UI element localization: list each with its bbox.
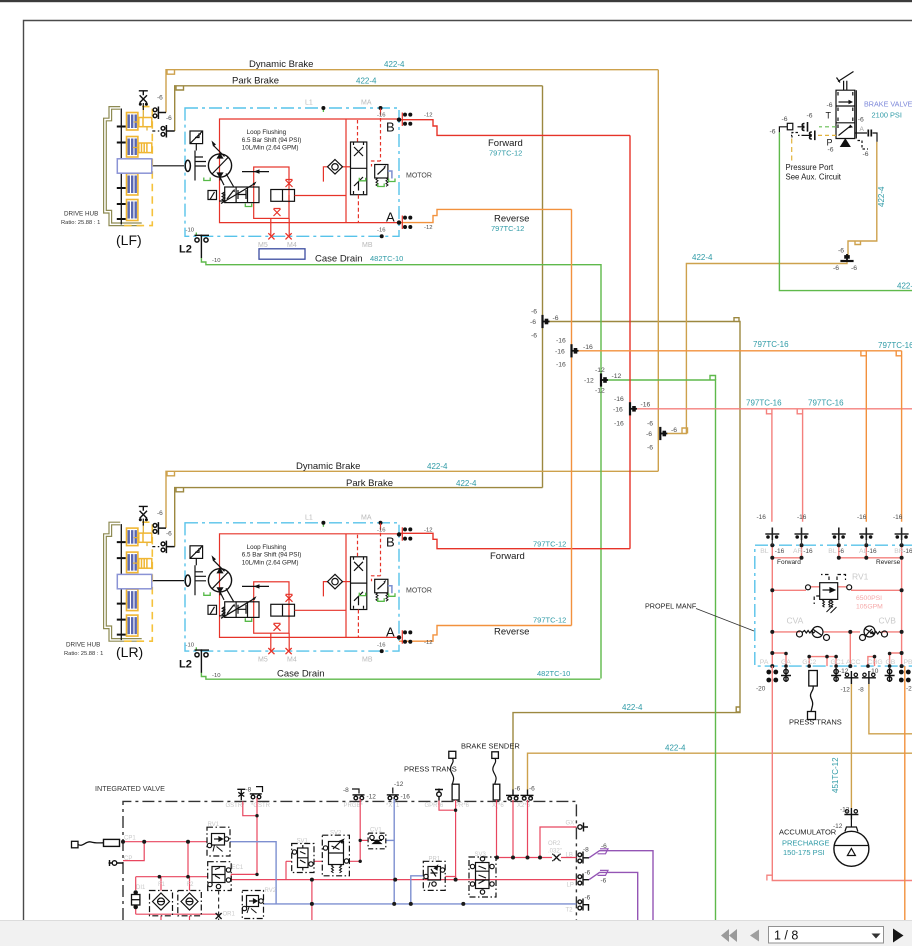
propel manifold enclosure (755, 545, 912, 666)
svg-text:422-4: 422-4 (897, 282, 912, 291)
GA diagnostic fitting (781, 668, 791, 682)
svg-text:PROPEL MANF: PROPEL MANF (645, 602, 697, 611)
wire forward trunk vertical (629, 135, 631, 548)
svg-text:M4: M4 (287, 657, 297, 664)
svg-text:-6: -6 (515, 786, 521, 793)
svg-text:422-4: 422-4 (877, 186, 886, 207)
svg-text:-6: -6 (531, 309, 537, 316)
svg-text:-12: -12 (424, 640, 433, 646)
svg-text:A: A (386, 624, 395, 639)
svg-text:-12: -12 (584, 378, 594, 385)
brake valve check valve (841, 139, 850, 146)
svg-text:OR1: OR1 (223, 912, 236, 918)
svg-text:*GSTR: *GSTR (251, 803, 271, 809)
node reverse tee (555, 338, 593, 369)
svg-text:DI1: DI1 (136, 885, 146, 891)
svg-text:422-4: 422-4 (356, 76, 377, 85)
next-page nav icon (893, 929, 904, 943)
svg-text:-6: -6 (647, 421, 653, 428)
svg-text:-10: -10 (212, 258, 221, 264)
integrated valve enclosure (123, 801, 576, 920)
svg-text:Ratio: 25.88 : 1: Ratio: 25.88 : 1 (64, 651, 103, 657)
svg-text:797TC-12: 797TC-12 (491, 224, 524, 233)
svg-text:-6: -6 (770, 129, 776, 136)
wire LR forward 797TC-12 (399, 533, 630, 548)
svg-text:-6: -6 (833, 265, 839, 272)
svg-text:-10: -10 (869, 668, 879, 675)
wire PR1 tank link (411, 876, 424, 904)
component RV1 (iv) (207, 827, 230, 856)
ACC connector (844, 671, 858, 684)
svg-text:L1: L1 (305, 514, 313, 521)
svg-text:-12: -12 (595, 388, 605, 395)
svg-text:-12: -12 (424, 527, 433, 533)
422-4 inlet fittings (506, 790, 519, 801)
GC1 diagnostic fitting (831, 668, 841, 682)
svg-text:-12: -12 (424, 225, 433, 231)
svg-text:-16: -16 (377, 527, 386, 533)
node dynamic brake tee (646, 421, 677, 452)
CP1 connector (72, 841, 79, 848)
relief valve RV1 (806, 575, 852, 614)
svg-text:GA: GA (781, 659, 791, 666)
wire brake pressure rail (497, 857, 577, 859)
wire main pressure rail (231, 879, 576, 881)
svg-text:MB: MB (362, 242, 373, 249)
pressure port stub (dashed) (791, 133, 804, 138)
svg-text:DRIVE HUB: DRIVE HUB (66, 642, 100, 649)
port size labels right edge (583, 843, 607, 902)
wire LB (purple) (589, 851, 653, 920)
svg-text:797TC-16: 797TC-16 (808, 399, 844, 408)
svg-text:422-4: 422-4 (692, 253, 713, 262)
junction dots (121, 809, 542, 906)
leader line (696, 609, 754, 632)
svg-text:F1: F1 (158, 882, 166, 888)
svg-text:-6: -6 (529, 786, 535, 793)
svg-text:422-4: 422-4 (456, 479, 477, 488)
wire CP1 supply rail (123, 841, 207, 843)
svg-text:Park Brake: Park Brake (232, 75, 279, 86)
forward gallery (772, 545, 901, 666)
svg-text:See Aux. Circuit: See Aux. Circuit (786, 173, 842, 182)
svg-text:MA: MA (361, 514, 372, 521)
svg-text:-6: -6 (838, 548, 844, 555)
svg-text:-8: -8 (583, 847, 589, 854)
svg-text:MOTOR: MOTOR (406, 587, 432, 594)
svg-text:Forward: Forward (490, 551, 525, 562)
PB hose coupling (899, 670, 911, 683)
wire PRGB drop (349, 799, 360, 861)
svg-text:-10: -10 (186, 228, 195, 234)
svg-text:PRECHARGE: PRECHARGE (782, 839, 830, 848)
svg-text:T: T (826, 111, 832, 121)
svg-text:150-175 PSI: 150-175 PSI (783, 848, 825, 857)
svg-text:-6: -6 (157, 95, 163, 102)
CHG connector (862, 671, 876, 684)
connector stems into box (772, 540, 901, 545)
svg-text:Forward: Forward (777, 559, 801, 566)
svg-text:797TC-16: 797TC-16 (878, 341, 912, 350)
tee test fitting (802, 122, 807, 132)
svg-text:CHG: CHG (868, 659, 883, 666)
motor circuit LR (152, 521, 413, 673)
svg-text:-6: -6 (828, 147, 834, 154)
PRGB fitting (352, 789, 365, 800)
wire CHG port line (869, 684, 912, 734)
svg-text:-16: -16 (641, 402, 651, 409)
wire CV1 in (360, 839, 368, 841)
svg-text:-12: -12 (612, 373, 622, 380)
wire LF dynamic brake (422-4) (166, 70, 658, 113)
accumulator (850, 820, 852, 828)
svg-text:-16: -16 (556, 362, 566, 369)
svg-text:INTEGRATED VALVE: INTEGRATED VALVE (95, 784, 165, 793)
wire reverse supply 797TC-16 to propel manifold (572, 351, 902, 522)
svg-text:2100 PSI: 2100 PSI (872, 111, 902, 120)
svg-text:M5: M5 (258, 242, 268, 249)
port LP (578, 874, 589, 886)
component DI1 (132, 891, 140, 910)
wire PR drop (455, 800, 457, 880)
svg-text:-6: -6 (166, 115, 172, 122)
svg-text:-16: -16 (377, 228, 386, 234)
left/right main galleries (772, 558, 901, 651)
svg-text:-20: -20 (906, 686, 912, 693)
wire LR park brake (175, 488, 543, 547)
svg-text:-12: -12 (839, 668, 849, 675)
svg-text:797TC-12: 797TC-12 (489, 149, 522, 158)
brake valve body (836, 90, 856, 138)
wire GPR drop (439, 801, 456, 811)
svg-text:-6: -6 (601, 843, 607, 850)
port GX (573, 826, 576, 828)
wire park brake branch to integrated valve (422-4) (513, 322, 740, 791)
wire filter rail (136, 876, 208, 878)
wire CV1 out (386, 839, 394, 841)
svg-text:422-4: 422-4 (427, 462, 448, 471)
svg-text:X(*6: X(*6 (492, 803, 504, 809)
svg-text:-16: -16 (893, 514, 903, 521)
prev-page nav icon (750, 930, 759, 942)
svg-text:Park Brake: Park Brake (346, 478, 393, 489)
svg-text:L2: L2 (179, 658, 192, 670)
svg-text:105GPM: 105GPM (856, 604, 883, 611)
svg-text:-6: -6 (851, 265, 857, 272)
svg-text:Pressure Port: Pressure Port (786, 163, 834, 172)
wire RV1 tank link (230, 842, 276, 904)
size labels top connectors (757, 514, 903, 521)
svg-text:-16: -16 (613, 407, 623, 414)
press transducer PR (449, 751, 456, 758)
svg-text:GC2: GC2 (802, 659, 816, 666)
svg-text:422-4: 422-4 (384, 60, 405, 69)
svg-text:Ratio: 25.88 : 1: Ratio: 25.88 : 1 (61, 220, 100, 226)
svg-text:BL: BL (828, 548, 837, 555)
svg-text:LB: LB (566, 853, 573, 859)
component RV2 (242, 891, 263, 919)
orifice OR2 (552, 854, 561, 861)
svg-text:SV3: SV3 (475, 852, 487, 858)
GPR fitting (435, 789, 443, 801)
svg-text:CVA: CVA (787, 616, 804, 626)
svg-text:797TC-16: 797TC-16 (746, 399, 782, 408)
svg-text:CP: CP (124, 856, 132, 862)
svg-text:PRESS TRANS: PRESS TRANS (404, 765, 457, 774)
svg-text:-8: -8 (343, 787, 349, 794)
component F1 filter (150, 891, 173, 916)
svg-text:CV1: CV1 (370, 828, 382, 834)
svg-text:M5: M5 (258, 657, 268, 664)
wire brake valve A to dynamic trunk (422-4) (662, 142, 877, 434)
wire XT1 drop (steel) (393, 799, 395, 904)
svg-text:-12: -12 (424, 113, 433, 119)
svg-text:-16: -16 (857, 514, 867, 521)
svg-text:-10: -10 (186, 642, 195, 648)
svg-text:A: A (386, 210, 395, 225)
svg-text:L1: L1 (305, 100, 313, 107)
svg-text:-6: -6 (157, 510, 163, 517)
wire tank rail (steel) (264, 903, 577, 905)
port square (787, 123, 793, 130)
wire LP (purple) (589, 872, 638, 920)
svg-text:CVB: CVB (879, 616, 897, 626)
svg-text:M4: M4 (287, 242, 297, 249)
svg-text:422-4: 422-4 (622, 703, 643, 712)
svg-text:SV1: SV1 (297, 839, 309, 845)
wire CP branch (123, 842, 144, 861)
component SV1 (292, 844, 314, 873)
node park brake tee (530, 309, 559, 340)
component SV2 (322, 835, 349, 876)
svg-text:ACCUMULATOR: ACCUMULATOR (779, 828, 837, 837)
svg-text:PR1: PR1 (429, 857, 441, 863)
XT1 fitting (387, 788, 399, 800)
component CV1 (368, 833, 386, 849)
svg-text:MB: MB (362, 657, 373, 664)
wire SV1-SV2 link (286, 861, 322, 879)
gray port name labels on top border (226, 803, 531, 809)
svg-text:MOTOR: MOTOR (406, 173, 432, 180)
wire brake sender drop (496, 800, 498, 858)
svg-text:6500PSI: 6500PSI (856, 595, 882, 602)
port LB (578, 852, 589, 864)
svg-text:1 / 8: 1 / 8 (774, 929, 798, 943)
svg-text:-6: -6 (807, 113, 813, 120)
svg-text:DRIVE HUB: DRIVE HUB (64, 211, 98, 218)
svg-text:-6: -6 (827, 102, 833, 109)
orifice OR1 (216, 913, 222, 919)
relief gallery (772, 587, 901, 591)
svg-text:-16: -16 (377, 642, 386, 648)
PA hose coupling (766, 670, 778, 683)
brake valve P port (gold dashed) (818, 134, 836, 136)
page combo box (769, 927, 884, 944)
wire brake valve T drain (green 422-4) (779, 132, 912, 290)
svg-text:-16: -16 (614, 396, 624, 403)
svg-text:-6: -6 (671, 427, 677, 434)
top hose connectors (765, 528, 908, 541)
wire LF park brake (175, 86, 543, 131)
svg-text:AR: AR (793, 548, 803, 555)
tee test fitting P (810, 131, 815, 141)
svg-text:-8: -8 (858, 687, 864, 694)
svg-text:-16: -16 (803, 548, 813, 555)
accumulator fitting (844, 808, 858, 820)
wire LF reverse 797TC-12 (399, 209, 572, 222)
svg-text:BRAKE SENDER: BRAKE SENDER (461, 742, 520, 751)
svg-text:-16: -16 (555, 349, 565, 356)
svg-text:482TC-10: 482TC-10 (537, 669, 570, 678)
svg-text:797TC-16: 797TC-16 (753, 340, 789, 349)
motor circuit LF (152, 106, 413, 258)
svg-text:422-4: 422-4 (665, 744, 686, 753)
svg-text:Loop Flushing: Loop Flushing (247, 544, 287, 551)
svg-text:-12: -12 (367, 794, 377, 801)
wire filter bottom rail (136, 913, 219, 915)
svg-text:CP1: CP1 (124, 836, 136, 842)
wire accumulator drop (850, 684, 852, 808)
wire LR reverse 797TC-12 (399, 626, 572, 642)
component SV3 (469, 857, 496, 897)
svg-text:PR*6: PR*6 (455, 803, 470, 809)
wire 422-4 drops (513, 800, 528, 858)
pin size labels (770, 102, 869, 158)
wire LR dynamic brake (166, 471, 658, 528)
wire park brake trunk vertical (to LR) (542, 86, 544, 488)
brake valve T port line (green dashed) (819, 126, 836, 128)
svg-text:B: B (386, 534, 395, 549)
wire dynamic brake trunk vertical (to LR) (657, 70, 659, 472)
svg-text:Loop Flushing: Loop Flushing (247, 129, 287, 136)
svg-text:-16: -16 (867, 548, 877, 555)
svg-text:GPR*6: GPR*6 (425, 803, 444, 809)
svg-text:BRAKE VALVE: BRAKE VALVE (864, 100, 912, 109)
svg-text:*XT1: *XT1 (386, 803, 400, 809)
svg-text:-12: -12 (595, 367, 605, 374)
svg-text:-12: -12 (394, 781, 404, 788)
case drain sample rectangle LF (259, 249, 305, 259)
svg-text:-16: -16 (797, 514, 807, 521)
node forward tee (613, 396, 651, 428)
GC2 press trans plug (809, 671, 818, 687)
svg-text:-6: -6 (647, 445, 653, 452)
check valve CVB (860, 626, 888, 641)
svg-text:-8: -8 (246, 787, 252, 794)
svg-text:-6: -6 (863, 151, 869, 158)
svg-text:10L/Min (2.64 GPM): 10L/Min (2.64 GPM) (242, 559, 299, 566)
GSTR needle valve fitting (237, 789, 245, 800)
wire reverse trunk vertical (571, 209, 573, 625)
drive hub LR (104, 506, 175, 641)
node brake valve 422-4 tee (833, 248, 857, 273)
svg-text:RV2: RV2 (265, 888, 277, 894)
wire PR1 out (445, 877, 455, 880)
top viewer border line (0, 0, 912, 2)
svg-text:-6: -6 (166, 531, 172, 538)
svg-text:Case Drain: Case Drain (277, 668, 325, 679)
toolbar (0, 920, 912, 946)
svg-text:GB: GB (886, 659, 896, 666)
bottom port stubs (772, 651, 901, 666)
svg-text:ACC: ACC (846, 659, 860, 666)
svg-text:-16: -16 (401, 794, 411, 801)
wire GSTR drop (243, 798, 257, 874)
port T2 (578, 899, 589, 911)
svg-text:-12: -12 (841, 687, 851, 694)
svg-text:GC1: GC1 (831, 659, 845, 666)
svg-text:.032": .032" (548, 849, 562, 855)
GSTR hose fitting (250, 787, 263, 799)
svg-text:Dynamic Brake: Dynamic Brake (249, 59, 313, 70)
svg-text:X2*6: X2*6 (517, 803, 531, 809)
wire LF forward 797TC-12 (399, 120, 630, 136)
component PR1 (423, 861, 445, 890)
svg-text:A: A (860, 126, 865, 133)
svg-text:EC1: EC1 (232, 865, 244, 871)
node case drain tee (584, 367, 622, 395)
component EC1 (208, 862, 232, 891)
wire 422-4 from integrated valve to accumulator row (528, 753, 912, 790)
svg-text:MA: MA (361, 100, 372, 107)
svg-text:PRESS TRANS: PRESS TRANS (789, 718, 842, 727)
svg-text:797TC-12: 797TC-12 (533, 540, 566, 549)
svg-text:451TC-12: 451TC-12 (831, 757, 840, 793)
svg-text:-12: -12 (840, 807, 850, 814)
svg-text:-6: -6 (646, 431, 652, 438)
svg-text:Dynamic Brake: Dynamic Brake (296, 461, 360, 472)
svg-text:F2: F2 (187, 882, 195, 888)
port labels top edge (760, 548, 904, 555)
svg-text:-6: -6 (531, 333, 537, 340)
wire forward supply 797TC-16 to propel manifold (630, 408, 912, 410)
wire PB line down (904, 666, 906, 920)
svg-text:-6: -6 (553, 315, 559, 322)
wire case drain branch to tank line (601, 380, 716, 920)
svg-text:SV2: SV2 (330, 831, 342, 837)
check valve CVA (797, 627, 830, 641)
wire LF case drain 482TC-10 (201, 258, 601, 679)
svg-text:(LF): (LF) (116, 232, 142, 248)
svg-text:-16: -16 (614, 421, 624, 428)
wire filter feed (187, 842, 189, 877)
svg-text:-6: -6 (585, 870, 591, 877)
check gallery (772, 632, 901, 651)
svg-text:-16: -16 (583, 344, 593, 351)
svg-text:RV1: RV1 (208, 822, 220, 828)
svg-text:-6: -6 (530, 319, 536, 326)
svg-text:-6: -6 (585, 895, 591, 902)
svg-text:482TC-10: 482TC-10 (370, 254, 403, 263)
junction dots (770, 543, 903, 668)
svg-text:-16: -16 (903, 548, 912, 555)
svg-text:Reverse: Reverse (876, 559, 901, 566)
brake valve pedal (837, 72, 854, 91)
wire LR case drain 482TC-10 (201, 673, 600, 680)
brake valve A port fitting (868, 130, 871, 137)
svg-text:6.5 Bar Shift (94 PSI): 6.5 Bar Shift (94 PSI) (242, 552, 301, 559)
CP fitting (109, 860, 124, 866)
svg-text:-6: -6 (782, 116, 788, 123)
svg-text:-6: -6 (838, 248, 844, 255)
svg-text:Case Drain: Case Drain (315, 253, 363, 264)
svg-text:(LR): (LR) (116, 644, 143, 660)
brake valve cell arrows (839, 101, 850, 103)
svg-text:797TC-12: 797TC-12 (533, 616, 566, 625)
svg-text:-16: -16 (377, 113, 386, 119)
svg-text:-16: -16 (757, 514, 767, 521)
svg-text:GX: GX (566, 821, 575, 827)
